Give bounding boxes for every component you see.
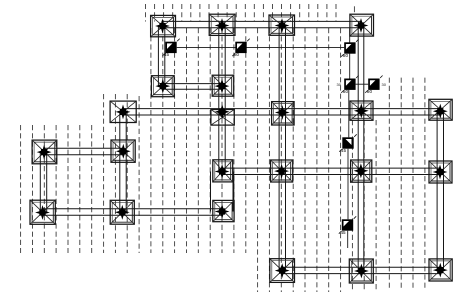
tie line C — [349, 29, 351, 79]
tie line E — [347, 149, 349, 220]
wall pier F14-F20 right edge — [232, 172, 234, 212]
beam H6 (left bottom row) — [42, 209, 222, 215]
svg-text:80: 80 — [343, 89, 349, 94]
tie line D — [348, 90, 350, 137]
column footing F14 — [213, 160, 233, 182]
column footing F11 — [429, 99, 452, 120]
column footing F12 — [32, 140, 57, 164]
beam V3 — [279, 26, 285, 271]
column footing F13 — [111, 140, 135, 162]
beam V1 — [158, 26, 164, 86]
beam V4 — [358, 26, 364, 271]
svg-text:45: 45 — [341, 230, 347, 235]
beam H7 (bottom row) — [282, 267, 440, 273]
column marker P2 — [232, 39, 249, 58]
svg-text:45: 45 — [341, 148, 347, 153]
tie line A — [177, 46, 345, 48]
column footing F6 — [212, 75, 234, 96]
column marker P5 — [365, 76, 382, 95]
svg-text:30: 30 — [337, 82, 342, 87]
column footing F18 — [30, 200, 55, 224]
column footing F23 — [429, 259, 452, 281]
beam H2 (row 2) — [163, 84, 222, 90]
column marker P6 — [339, 134, 356, 153]
column footing F21 — [270, 259, 295, 283]
svg-text:80: 80 — [343, 53, 349, 58]
svg-text:80: 80 — [234, 52, 240, 57]
column footing F4 — [350, 14, 374, 36]
column footing F2 — [209, 14, 235, 35]
beam V2 — [219, 26, 225, 172]
beam H5 (mid lower row) — [222, 168, 440, 174]
column footing F1 — [151, 15, 176, 36]
column footing F8 — [211, 104, 234, 125]
beam V7 — [120, 112, 126, 212]
tie line B — [356, 83, 369, 85]
column footing F22 — [349, 259, 373, 283]
column footing F17 — [429, 161, 452, 183]
beam H4 (left upper row) — [44, 148, 123, 154]
wall pier F14-F20 left edge — [210, 172, 212, 212]
column marker P3 — [341, 39, 358, 58]
svg-text:80: 80 — [367, 89, 373, 94]
column footing F3 — [269, 15, 295, 35]
column marker P7 — [339, 216, 356, 235]
beam V5 — [437, 110, 443, 270]
column footing F15 — [271, 160, 293, 182]
column marker P4 — [341, 76, 358, 95]
beam H1 (top row) — [162, 21, 362, 27]
column footing F7 — [110, 101, 136, 122]
svg-text:45: 45 — [164, 52, 170, 57]
beam V6 — [40, 152, 46, 212]
tie line F — [347, 231, 349, 248]
column marker P1 — [162, 39, 179, 58]
column footing F16 — [351, 160, 372, 182]
column footing F20 — [213, 200, 234, 221]
column footing F9 — [272, 102, 295, 125]
hatch field 12px pitch — [21, 28, 425, 292]
svg-text:30: 30 — [382, 82, 387, 87]
column footing F10 — [350, 101, 373, 120]
beam H3 (long mid row) — [123, 109, 440, 115]
hatch strip top edge (9px pitch) — [146, 4, 337, 22]
column footing F19 — [110, 200, 134, 224]
column footing F5 — [151, 76, 174, 97]
stray dash above F4 — [353, 6, 355, 12]
